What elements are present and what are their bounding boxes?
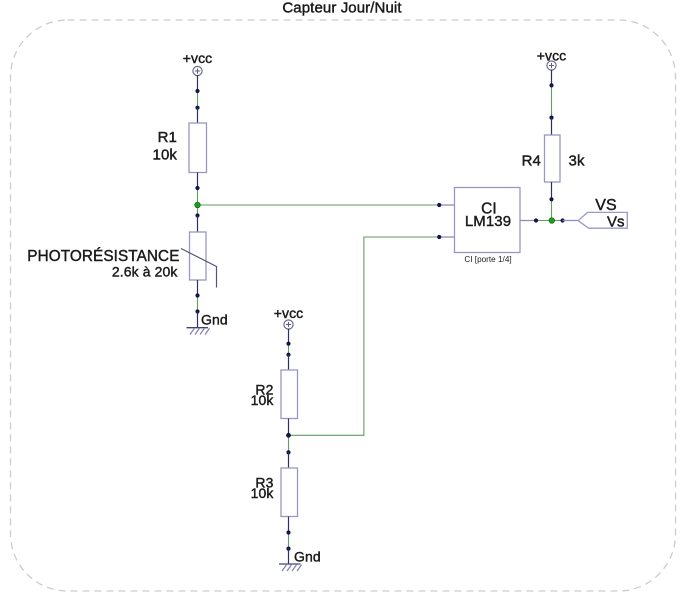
svg-text:2.6k à 20k: 2.6k à 20k <box>112 264 178 280</box>
wire R3 bottom to gnd <box>288 533 290 549</box>
wire vcc2 to R2 <box>288 344 290 355</box>
node VS junction <box>549 218 555 224</box>
photoresistor LDR1 <box>27 216 216 296</box>
svg-text:LM139: LM139 <box>465 213 511 230</box>
pin dot <box>195 213 199 217</box>
wire LDR bottom to gnd <box>197 296 199 312</box>
svg-text:Vs: Vs <box>607 214 625 231</box>
pin dot <box>195 186 199 190</box>
op-amp U1 CI LM139 <box>439 188 536 264</box>
node B junction <box>286 433 291 438</box>
pin dot <box>549 197 553 201</box>
pin output <box>520 220 536 222</box>
wire R2 bottom to R3 top <box>288 435 290 452</box>
wire R1 bottom to node A <box>197 188 199 216</box>
svg-text:Gnd: Gnd <box>294 549 321 565</box>
resistor R4 <box>522 118 585 200</box>
wire node A to IC plus input <box>198 204 440 206</box>
svg-text:PHOTORÉSISTANCE: PHOTORÉSISTANCE <box>27 248 179 265</box>
pin dot <box>549 83 553 87</box>
svg-text:R1: R1 <box>158 129 177 146</box>
svg-text:VS: VS <box>595 197 617 214</box>
svg-text:10k: 10k <box>153 147 178 164</box>
pin dot <box>286 547 290 551</box>
svg-text:10k: 10k <box>251 485 275 501</box>
svg-text:R4: R4 <box>522 153 541 170</box>
wire R4 bottom to node VS <box>551 199 553 220</box>
pin dot <box>195 309 199 313</box>
pin dot <box>561 218 565 222</box>
node A junction <box>195 202 201 208</box>
power +vcc P2 <box>274 305 304 344</box>
wire net A (R1/LDR junction to IC + input) <box>197 91 199 108</box>
svg-text:+vcc: +vcc <box>274 305 304 321</box>
pin dot <box>195 89 199 93</box>
resistor R2 <box>251 355 298 436</box>
wire R2/R3 divider node to IC minus input <box>289 237 440 435</box>
pin + input <box>439 204 454 206</box>
svg-text:Gnd: Gnd <box>201 311 228 327</box>
svg-text:+vcc: +vcc <box>183 50 213 66</box>
power +vcc P3 <box>537 48 567 86</box>
pin dot <box>549 116 553 120</box>
pin dot <box>195 106 199 110</box>
pin dot <box>534 218 538 222</box>
svg-text:Capteur Jour/Nuit: Capteur Jour/Nuit <box>282 0 402 17</box>
pin dot <box>286 530 290 534</box>
svg-text:10k: 10k <box>251 392 275 408</box>
pin dot <box>437 203 441 207</box>
svg-text:3k: 3k <box>569 153 585 170</box>
resistor R1 <box>153 108 207 188</box>
wire vcc3 to R4 <box>551 85 553 117</box>
pin - input <box>439 236 454 238</box>
svg-text:CI [porte 1/4]: CI [porte 1/4] <box>464 255 511 264</box>
pin dot <box>286 353 290 357</box>
pin dot <box>195 293 199 297</box>
wire IC output to node VS to connector <box>536 220 563 222</box>
pin dot <box>286 450 290 454</box>
resistor R3 <box>251 452 298 532</box>
connector VS <box>563 197 628 231</box>
pin dot <box>286 342 290 346</box>
pin dot <box>437 235 441 239</box>
ground GND1 <box>187 311 228 334</box>
power +vcc P1 <box>183 50 213 91</box>
ground GND2 <box>279 549 321 572</box>
